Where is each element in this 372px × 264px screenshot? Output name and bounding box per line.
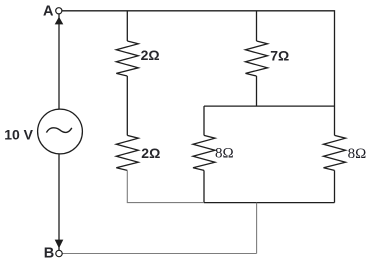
svg-text:8Ω: 8Ω <box>215 146 234 162</box>
svg-text:A: A <box>43 4 54 20</box>
svg-text:10 V: 10 V <box>4 126 33 142</box>
svg-text:7Ω: 7Ω <box>270 47 289 63</box>
svg-text:B: B <box>44 246 54 262</box>
svg-text:2Ω: 2Ω <box>141 47 160 63</box>
svg-text:2Ω: 2Ω <box>141 145 160 161</box>
svg-text:8Ω: 8Ω <box>348 146 367 162</box>
